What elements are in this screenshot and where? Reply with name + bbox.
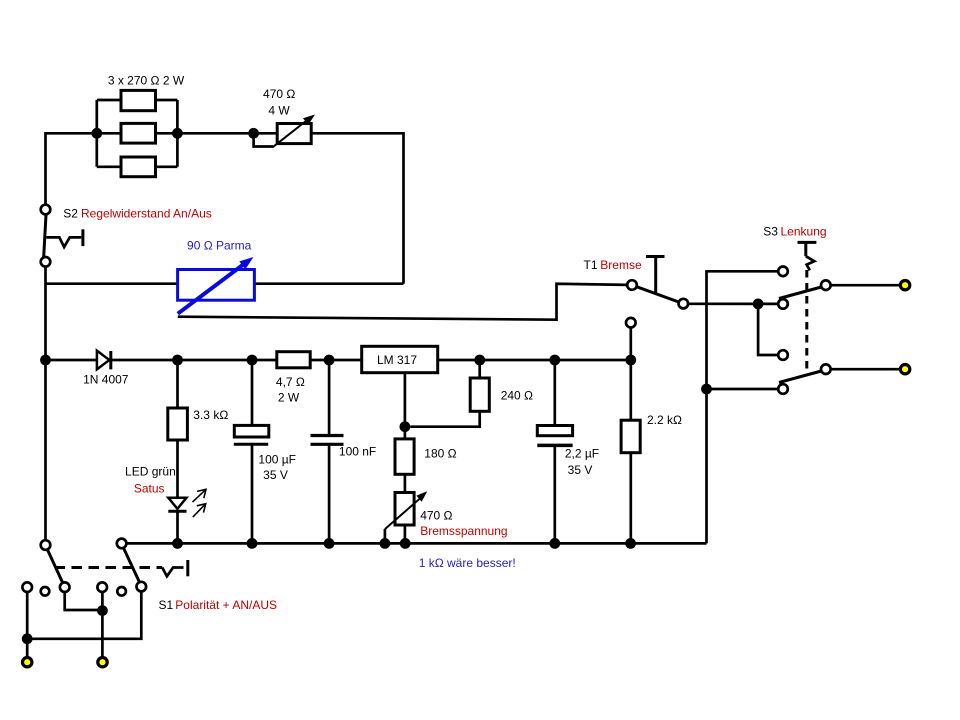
svg-text:S3: S3 [763,225,778,239]
svg-text:LM 317: LM 317 [377,353,417,367]
wire S3 top contact to rail [707,270,779,273]
wire S3 lower pole to terminal [831,368,900,371]
resistor 240 ohm [470,378,489,411]
node S3 contact top-left [778,267,788,277]
svg-text:3.3 kΩ: 3.3 kΩ [193,408,228,422]
switch S3 upper lever [779,287,821,299]
svg-text:2 W: 2 W [278,391,300,405]
switch S2 [41,205,83,267]
node S1 contact center-left [97,582,107,592]
svg-text:LED grün: LED grün [125,465,176,479]
node junction 3.3k column top [172,355,183,366]
node T1 throw contact right [679,299,689,309]
node T1 throw contact lower [626,318,636,328]
svg-text:Polarität + AN/AUS: Polarität + AN/AUS [175,598,277,612]
LED green [168,489,206,517]
switch S1 pole B contact [117,539,127,549]
switch S3 actuator [798,242,817,270]
wire right rail [705,270,708,543]
capacitor 2,2uF 35V [537,426,572,446]
resistor 3.3 kohm [168,408,188,440]
wire main bus left [46,359,97,362]
svg-text:240 Ω: 240 Ω [501,389,533,403]
wire LM317 adj column [404,373,407,544]
node junction rail main bus [40,355,51,366]
svg-text:180 Ω: 180 Ω [424,447,456,461]
node junction adj [400,421,411,432]
node junction 240 ohm column top [474,355,485,366]
node S3 contact middle-left [778,299,788,309]
svg-text:1 kΩ wäre besser!: 1 kΩ wäre besser! [419,556,516,570]
svg-text:2,2 µF: 2,2 µF [565,447,599,461]
wire main bus middle [111,359,362,362]
svg-text:470 Ω: 470 Ω [263,87,295,101]
svg-text:4 W: 4 W [268,104,290,118]
switch S1 actuator [162,560,188,576]
transistor T1 actuator bar [646,257,665,293]
svg-text:100 nF: 100 nF [339,445,376,459]
wire parallel resistor frame [97,100,178,167]
node S3 contact lower-middle [778,350,788,360]
svg-text:35 V: 35 V [568,463,593,477]
node junction rail bottom contact [701,384,712,395]
svg-text:3 x 270 Ω 2 W: 3 x 270 Ω 2 W [108,74,185,88]
node junction 2,2uF column bottom [549,538,560,549]
regulator LM 317 [362,346,438,372]
wire branch to S3 lower middle contact [758,304,778,355]
node junction S1 center [97,605,108,616]
node junction S1 left [22,633,33,644]
node S3 contact bottom-left [778,384,788,394]
switch S3 lower lever [779,371,821,383]
node junction right of resistor bank [172,128,183,139]
svg-text:S2: S2 [63,207,78,221]
node junction before potentiometer [248,128,259,139]
wire S3 upper pole to terminal [831,284,900,287]
node junction 2,2uF column top [549,355,560,366]
svg-text:S1: S1 [159,598,174,612]
wire rheostat right [254,282,403,285]
svg-text:470 Ω: 470 Ω [420,509,452,523]
wire T1 to S3 middle contact [688,302,778,305]
wire main bus right [438,359,631,362]
node S1 contact D [137,582,147,592]
node junction 100uF column top [247,355,258,366]
resistor 180 ohm [395,439,414,474]
node junction 100uF column bottom [247,538,258,549]
node junction pot column bottom [400,538,411,549]
rheostat 90 ohm Parma [178,257,255,314]
svg-text:1N 4007: 1N 4007 [83,373,129,387]
switch S1 mechanical link dashed [55,566,163,569]
wire S3 bottom contact to rail [707,388,779,391]
svg-text:Bremsspannung: Bremsspannung [420,524,507,538]
switch S1 lever B [124,548,140,582]
resistor 2.2 kohm [621,420,640,453]
wire 2,2uF column [553,360,556,543]
node junction 100nF column bottom [324,538,335,549]
wire 3.3k column [176,360,179,543]
capacitor 100nF [311,436,344,445]
capacitor 100uF 35V [234,425,269,444]
terminal track left yellow [23,658,32,667]
node S1 contact C [60,582,70,592]
node junction on T1-S3 wire [753,299,764,310]
node S1 contact off-right [117,587,126,596]
potentiometer 470 ohm 4 W [273,115,316,148]
node S1 contact off-left [41,587,50,596]
wire rheostat left [46,282,178,285]
svg-text:Bremse: Bremse [600,258,642,272]
wire bottom bus [126,542,706,545]
svg-text:35 V: 35 V [263,468,288,482]
svg-text:100 µF: 100 µF [258,453,296,467]
svg-text:Satus: Satus [134,482,165,496]
node junction LED column bottom [172,538,183,549]
node junction 2.2k column bottom [625,538,636,549]
node junction bus end 2.2k column [625,355,636,366]
svg-text:90 Ω Parma: 90 Ω Parma [187,239,252,253]
svg-text:2.2 kΩ: 2.2 kΩ [647,413,682,427]
node S3 upper pole [821,280,831,290]
wire S1 crossover D to left [27,591,141,638]
wire 2.2k column [629,360,632,543]
wire top bus loop [46,133,404,283]
wire 100nF column [328,360,331,543]
wire S1 crossover C to center [65,592,103,610]
wire left rail lower [44,267,47,541]
terminal output lower yellow [900,365,909,374]
wire 100uF column [251,360,254,543]
svg-text:Regelwiderstand An/Aus: Regelwiderstand An/Aus [81,207,212,221]
potentiometer 470 ohm Bremsspannung [385,491,427,543]
wire S3 mechanical link dashed [805,270,808,372]
terminal track right yellow [98,658,107,667]
terminal output upper yellow [900,281,909,290]
svg-text:4,7 Ω: 4,7 Ω [276,375,305,389]
node junction left of resistor bank [91,128,102,139]
wire S1 left output column [26,592,29,657]
resistor 4,7 ohm 2 W [277,352,310,368]
wire 240 ohm column [410,360,479,427]
wire S1 center output column [101,592,104,657]
svg-text:Lenkung: Lenkung [781,225,827,239]
switch S1 lever A [48,550,63,583]
node T1 common contact [627,280,637,290]
resistor bank 3 x 270 ohm 2 W [121,90,156,176]
node junction 100nF column top [324,355,335,366]
node S3 lower pole [821,364,831,374]
svg-text:T1: T1 [584,258,598,272]
transistor T1 switch lever [637,287,679,302]
wire rheostat wiper to T1 [178,284,627,320]
diode 1N4007 [97,351,111,370]
wire potentiometer wiper link [254,137,273,147]
switch S1 pole A contact [41,540,51,550]
node junction pot wiper bottom [380,538,391,549]
wire T1 lower contact to bus [629,328,632,361]
node S1 contact far-left [22,582,32,592]
